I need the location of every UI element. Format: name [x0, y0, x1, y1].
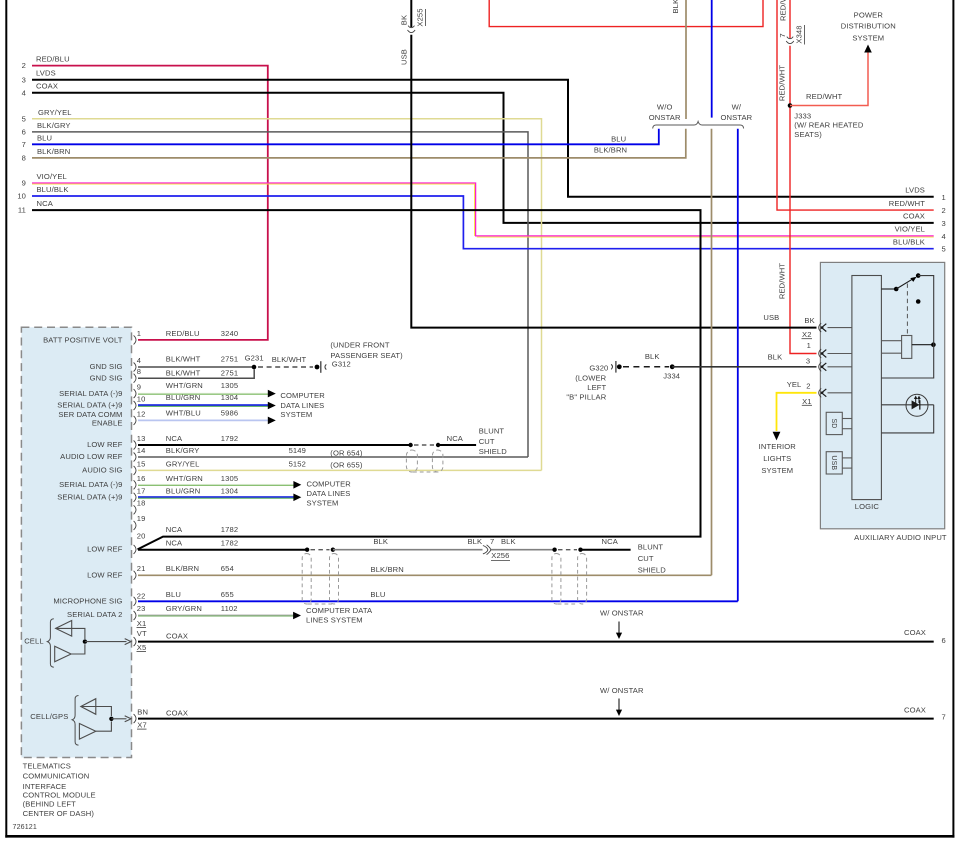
svg-text:GRY/GRN: GRY/GRN [166, 604, 202, 613]
CELL brace [47, 619, 53, 668]
CELL antenna upper (triangle left) [56, 621, 85, 640]
svg-text:BLK: BLK [645, 352, 660, 361]
svg-text:1305: 1305 [221, 381, 238, 390]
svg-text:BLK/BRN: BLK/BRN [166, 564, 199, 573]
telematics pin arcs on right edge [134, 335, 136, 723]
pin17 wire BLU/GRN [138, 497, 294, 498]
svg-text:BLU/BLK: BLU/BLK [893, 238, 925, 247]
interior lights arrow [773, 432, 781, 441]
svg-text:COAX: COAX [166, 632, 188, 641]
pin20 lower wire labels [166, 539, 238, 548]
svg-text:BLK: BLK [501, 537, 516, 546]
svg-text:BLK: BLK [768, 353, 783, 362]
wire 7 BLU with stub up to ONSTAR brace [32, 129, 659, 145]
CELL/GPS antenna upper [81, 699, 112, 716]
svg-text:SYSTEM: SYSTEM [307, 498, 339, 507]
svg-text:RED/WHT: RED/WHT [779, 0, 788, 21]
W/ ONSTAR label [720, 103, 752, 122]
aux internal pin leads with left arrows [828, 328, 852, 393]
pin4 labels [166, 341, 403, 369]
svg-text:RED/BLU: RED/BLU [166, 329, 200, 338]
left wire color labels [36, 55, 72, 209]
G320 ground terminal symbol [611, 361, 616, 373]
svg-text:INTERIOR: INTERIOR [759, 442, 797, 451]
W/ ONSTAR BLU vertical down to pin22 wire [737, 129, 739, 602]
svg-text:COMPUTER: COMPUTER [307, 480, 352, 489]
svg-text:ONSTAR: ONSTAR [649, 113, 681, 122]
svg-text:WHT/BLU: WHT/BLU [166, 408, 201, 417]
svg-text:7: 7 [778, 33, 787, 37]
svg-text:BLK/BRN: BLK/BRN [371, 565, 404, 574]
svg-text:AUXILIARY AUDIO INPUT: AUXILIARY AUDIO INPUT [854, 533, 947, 542]
W/O ONSTAR label [649, 103, 681, 122]
svg-text:RED/WHT: RED/WHT [778, 263, 787, 300]
svg-text:2: 2 [942, 206, 946, 215]
svg-text:LOW REF: LOW REF [87, 571, 123, 580]
W/ ONSTAR arrow 2 (to COAX 7) [600, 686, 644, 716]
wire 5 GRY/YEL routing down to pin15 wire [32, 119, 542, 471]
svg-text:2751: 2751 [221, 355, 238, 364]
pin13 wire NCA with shield dots [138, 443, 476, 447]
(LOWER LEFT B PILLAR text [566, 374, 606, 402]
svg-text:VIO/YEL: VIO/YEL [895, 225, 925, 234]
svg-text:BLU: BLU [37, 133, 52, 142]
svg-text:DISTRIBUTION: DISTRIBUTION [841, 22, 896, 31]
dashed ground lead to G312 [258, 366, 313, 368]
switch pivot dot [894, 287, 899, 292]
arrow pin10 [268, 402, 276, 410]
svg-text:9: 9 [137, 383, 141, 392]
svg-text:(W/ REAR HEATED: (W/ REAR HEATED [794, 121, 864, 130]
svg-text:20: 20 [137, 531, 146, 540]
svg-text:G231: G231 [245, 353, 264, 362]
svg-text:BLU: BLU [370, 590, 385, 599]
svg-text:SERIAL DATA (+)9: SERIAL DATA (+)9 [57, 401, 122, 410]
pin8 wire BLK/WHT up to G231 [138, 369, 254, 378]
arrow pin23 [293, 612, 301, 620]
svg-text:VT: VT [137, 629, 147, 638]
svg-text:BLUNT: BLUNT [638, 542, 664, 551]
svg-text:4: 4 [942, 232, 946, 241]
svg-text:TELEMATICS: TELEMATICS [23, 761, 71, 770]
svg-text:RED/BLU: RED/BLU [36, 55, 70, 64]
svg-text:BLUNT: BLUNT [479, 426, 505, 435]
G320 ground chain to aux BLK pin [589, 364, 608, 373]
svg-text:3: 3 [806, 356, 810, 365]
svg-text:GND SIG: GND SIG [90, 362, 123, 371]
W/ ONSTAR BLK/BRN vertical down to pin21 wire [711, 129, 713, 576]
aux switch leads [881, 288, 896, 290]
svg-text:11: 11 [18, 206, 26, 215]
svg-text:5986: 5986 [221, 408, 238, 417]
svg-text:W/: W/ [732, 103, 742, 112]
pin number labels [137, 329, 148, 730]
svg-text:17: 17 [137, 486, 146, 495]
svg-text:23: 23 [137, 604, 146, 613]
svg-text:COMPUTER: COMPUTER [280, 391, 325, 400]
svg-text:BLK/BRN: BLK/BRN [37, 147, 70, 156]
svg-text:COMMUNICATION: COMMUNICATION [23, 772, 90, 781]
computer data lines system text 1 [280, 391, 325, 419]
svg-text:CUT: CUT [479, 437, 495, 446]
relay coil box [902, 336, 912, 359]
svg-text:X7: X7 [137, 721, 147, 730]
svg-text:G312: G312 [332, 360, 351, 369]
switch NC contact dot [916, 299, 921, 304]
wire 4 COAX routing to right wire 3 [32, 93, 934, 223]
svg-text:BLK/GRY: BLK/GRY [37, 121, 71, 130]
svg-text:LEFT: LEFT [587, 383, 606, 392]
CELL antenna lower (triangle right) [55, 644, 85, 662]
svg-text:1: 1 [137, 329, 141, 338]
USB leads [842, 458, 852, 468]
CELL/GPS antenna group [30, 712, 68, 721]
svg-text:2: 2 [806, 382, 810, 391]
connector X256 symbol [483, 545, 491, 555]
svg-text:1782: 1782 [221, 539, 238, 548]
svg-text:BLK/BRN: BLK/BRN [594, 146, 627, 155]
CELL junction dot and lead to VT pin [83, 639, 131, 645]
svg-text:LVDS: LVDS [905, 186, 925, 195]
svg-text:3240: 3240 [221, 329, 238, 338]
svg-text:NCA: NCA [447, 434, 464, 443]
BN COAX wire [138, 718, 934, 720]
red loop wire at top (RED/WHT) [489, 0, 763, 27]
svg-text:COAX: COAX [36, 82, 58, 91]
relay input leads [881, 341, 901, 354]
G231 junction dot [252, 365, 257, 370]
svg-text:GRY/YEL: GRY/YEL [166, 459, 200, 468]
svg-text:655: 655 [221, 590, 234, 599]
pin10 wire BLU/GRN [138, 405, 268, 406]
red vertical RED/WHT with X348 and J333 to aux pin 1 [790, 0, 817, 354]
svg-text:12: 12 [137, 409, 146, 418]
svg-text:2: 2 [22, 61, 26, 70]
svg-text:SEATS): SEATS) [794, 130, 822, 139]
telematics internal pin function labels [43, 335, 123, 618]
svg-text:8: 8 [137, 367, 141, 376]
svg-text:GND SIG: GND SIG [90, 373, 123, 382]
svg-text:4: 4 [22, 88, 26, 97]
svg-text:1792: 1792 [221, 434, 238, 443]
svg-text:AUDIO SIG: AUDIO SIG [82, 466, 122, 475]
arrow to power distribution system [864, 45, 872, 53]
underlines for connector ids [137, 628, 147, 730]
svg-text:1305: 1305 [221, 474, 238, 483]
J333 branch to power distribution [790, 51, 868, 106]
CELL/GPS antenna lower [79, 721, 111, 739]
svg-text:DATA LINES: DATA LINES [307, 489, 351, 498]
switch enclosure outline [881, 276, 933, 378]
wire 2 RED/BLU horizontal+vertical to pin1 [32, 66, 268, 340]
rotated labels X255 [400, 8, 426, 65]
wire 6 BLK/GRY routing down to pin14 wire [32, 132, 528, 457]
svg-text:WHT/GRN: WHT/GRN [166, 381, 203, 390]
svg-text:X5: X5 [137, 643, 147, 652]
svg-text:SHIELD: SHIELD [638, 566, 667, 575]
svg-text:LVDS: LVDS [36, 69, 56, 78]
telematics module caption [23, 761, 96, 818]
svg-text:LINES SYSTEM: LINES SYSTEM [306, 616, 363, 625]
power distribution text [841, 11, 896, 43]
brace [653, 122, 744, 129]
svg-text:LOW REF: LOW REF [87, 545, 123, 554]
BLU label mid [611, 135, 626, 144]
arrow pin17 [293, 494, 301, 502]
svg-text:SD: SD [830, 419, 837, 429]
svg-text:10: 10 [17, 192, 26, 201]
svg-text:SERIAL DATA (-)9: SERIAL DATA (-)9 [59, 480, 122, 489]
wire 10 BLU/BLK routing to right wire 5 [32, 196, 934, 249]
svg-text:BLK/BRN: BLK/BRN [671, 0, 680, 14]
svg-text:15: 15 [137, 459, 146, 468]
page border left [5, 0, 7, 838]
svg-text:GRY/YEL: GRY/YEL [38, 108, 72, 117]
BLK label [645, 352, 660, 361]
computer data lines system text 2 [307, 480, 352, 508]
RED/WHT label on J333 branch [806, 92, 843, 101]
shield capsules pair around pins 21-22 right [552, 554, 587, 605]
svg-text:16: 16 [137, 474, 146, 483]
svg-text:COMPUTER DATA: COMPUTER DATA [306, 606, 373, 615]
svg-text:USB: USB [830, 455, 837, 470]
aux pin arcs on left edge [819, 323, 822, 397]
rotated label BLK/BRN at top [671, 0, 680, 14]
X256 labels [373, 537, 666, 574]
svg-text:1304: 1304 [221, 393, 238, 402]
svg-text:6: 6 [22, 128, 26, 137]
svg-text:PASSENGER SEAT): PASSENGER SEAT) [330, 351, 403, 360]
solid BLK wire J334 to aux pin 3 [672, 366, 816, 368]
svg-text:BLU: BLU [611, 135, 626, 144]
LED circle symbol [881, 394, 933, 416]
svg-text:7: 7 [490, 537, 494, 546]
W/ ONSTAR arrow 1 (to COAX 6) [600, 609, 644, 639]
svg-text:RED/WHT: RED/WHT [778, 65, 787, 102]
pin14 wire BLK/GRY [138, 456, 528, 458]
switch blade with arrow [896, 277, 916, 289]
LED circuit lines [881, 405, 933, 433]
svg-text:BLU/GRN: BLU/GRN [166, 393, 201, 402]
svg-text:ENABLE: ENABLE [92, 418, 123, 427]
svg-text:1: 1 [807, 341, 811, 350]
svg-text:USB: USB [763, 313, 779, 322]
svg-text:COAX: COAX [904, 628, 926, 637]
svg-text:BATT POSITIVE VOLT: BATT POSITIVE VOLT [43, 335, 123, 344]
CELL antenna group [24, 636, 43, 645]
arrow pin9 [268, 390, 276, 398]
pin23 wire GRY/GRN [138, 615, 294, 616]
svg-text:BLK/GRY: BLK/GRY [166, 446, 200, 455]
pin20 lower wire NCA shield chain [138, 548, 631, 552]
computer data lines system text 3 [306, 606, 373, 625]
BLK/BRN label mid [594, 146, 627, 155]
svg-text:SYSTEM: SYSTEM [761, 466, 793, 475]
svg-text:5: 5 [942, 245, 946, 254]
svg-text:19: 19 [137, 514, 146, 523]
svg-text:SYSTEM: SYSTEM [852, 34, 884, 43]
svg-text:1102: 1102 [221, 604, 238, 613]
svg-text:VIO/YEL: VIO/YEL [37, 172, 67, 181]
BLU vertical above brace [711, 0, 713, 118]
red vertical RED/WHT to right wire 2 [777, 0, 934, 210]
CELL/GPS brace [72, 696, 78, 746]
pin20 upper wire labels [166, 525, 238, 534]
svg-text:BLU/GRN: BLU/GRN [166, 486, 201, 495]
svg-text:X256: X256 [491, 551, 509, 560]
svg-text:10: 10 [137, 395, 146, 404]
USB port box [826, 452, 842, 474]
left wire number labels [17, 61, 26, 215]
svg-text:X2: X2 [802, 330, 812, 339]
svg-text:W/ ONSTAR: W/ ONSTAR [600, 686, 644, 695]
svg-text:X348: X348 [795, 25, 804, 43]
svg-text:J333: J333 [794, 111, 811, 120]
J333 junction dot [788, 103, 793, 108]
J333 text [794, 111, 864, 139]
G320 dot [617, 364, 622, 369]
VT COAX wire [138, 641, 934, 643]
shield capsules pair around pins 21-22 left [302, 554, 338, 605]
page border right [952, 0, 954, 838]
svg-text:9: 9 [22, 179, 26, 188]
svg-text:AUDIO LOW REF: AUDIO LOW REF [60, 452, 123, 461]
arrow pin16 [293, 481, 301, 489]
RIGHT WIRE GROUP labels (wires 1-7 on right edge) [889, 186, 926, 715]
svg-text:5152: 5152 [289, 459, 306, 468]
diagram number 726121 [13, 823, 37, 831]
J334 label [663, 371, 680, 380]
svg-text:7: 7 [942, 713, 946, 722]
wire 3 LVDS routing to right wire 1 [32, 80, 934, 197]
rotated labels near X348 [778, 0, 805, 299]
svg-text:DATA LINES: DATA LINES [280, 401, 324, 410]
SD card box [826, 412, 842, 434]
svg-text:(UNDER FRONT: (UNDER FRONT [330, 341, 389, 350]
pin22 wire BLU [138, 600, 738, 602]
svg-text:RED/WHT: RED/WHT [806, 92, 843, 101]
svg-text:SERIAL DATA (+)9: SERIAL DATA (+)9 [57, 493, 122, 502]
svg-text:1782: 1782 [221, 525, 238, 534]
svg-text:YEL: YEL [787, 380, 802, 389]
svg-text:NCA: NCA [166, 539, 183, 548]
svg-text:SERIAL DATA 2: SERIAL DATA 2 [67, 610, 122, 619]
SD leads [842, 419, 852, 429]
svg-text:BK: BK [400, 15, 409, 25]
svg-text:NCA: NCA [37, 199, 54, 208]
svg-text:(OR 655): (OR 655) [330, 461, 363, 470]
svg-text:4: 4 [137, 356, 141, 365]
svg-text:CELL/GPS: CELL/GPS [30, 712, 68, 721]
LOGIC block [852, 276, 882, 512]
svg-text:"B" PILLAR: "B" PILLAR [566, 392, 606, 401]
svg-text:CENTER OF DASH): CENTER OF DASH) [23, 809, 95, 818]
svg-text:INTERFACE: INTERFACE [23, 782, 67, 791]
svg-text:2751: 2751 [221, 368, 238, 377]
G312 ground terminal symbol [315, 361, 327, 373]
aux pin labels [763, 313, 814, 406]
pin1 wire labels [166, 329, 238, 338]
svg-text:W/ ONSTAR: W/ ONSTAR [600, 609, 644, 618]
pin16 wire WHT/GRN [138, 484, 294, 485]
svg-text:3: 3 [22, 75, 26, 84]
relay output lead to enclosure [912, 342, 936, 347]
svg-text:X255: X255 [416, 8, 425, 26]
svg-text:22: 22 [137, 591, 146, 600]
svg-text:13: 13 [137, 434, 146, 443]
connector X255 symbol [408, 26, 416, 33]
switch dashed actuator link [906, 284, 908, 336]
pin15 wire GRY/YEL [138, 469, 542, 471]
svg-text:3: 3 [942, 219, 946, 228]
svg-text:CONTROL MODULE: CONTROL MODULE [23, 791, 96, 800]
svg-text:(BEHIND LEFT: (BEHIND LEFT [23, 800, 77, 809]
wire 11 NCA routing down to pin20 upper wire [32, 210, 701, 549]
svg-text:RED/WHT: RED/WHT [889, 199, 926, 208]
svg-text:BN: BN [137, 707, 148, 716]
svg-text:ONSTAR: ONSTAR [720, 113, 752, 122]
BLK/BRN vertical above brace [685, 0, 687, 119]
svg-text:BLK: BLK [373, 537, 388, 546]
svg-text:1: 1 [942, 193, 946, 202]
svg-text:654: 654 [221, 564, 234, 573]
svg-text:G320: G320 [589, 364, 608, 373]
pin21 wire BLK/BRN [138, 574, 712, 576]
svg-text:NCA: NCA [166, 434, 183, 443]
TELEMATICS MODULE BOX [21, 327, 131, 757]
svg-text:21: 21 [137, 564, 146, 573]
J334 junction dot [670, 364, 675, 369]
dashed BLK lead G320 to J334 [623, 366, 669, 368]
svg-text:W/O: W/O [657, 103, 673, 112]
svg-text:BLK/WHT: BLK/WHT [272, 355, 307, 364]
svg-text:BLU: BLU [166, 590, 181, 599]
svg-text:MICROPHONE SIG: MICROPHONE SIG [53, 597, 122, 606]
pin12 wire WHT/BLU [138, 419, 268, 421]
AUXILIARY AUDIO INPUT BOX [820, 262, 944, 528]
svg-text:7: 7 [22, 140, 26, 149]
svg-text:BLU/BLK: BLU/BLK [37, 185, 69, 194]
svg-text:J334: J334 [663, 371, 680, 380]
svg-text:726121: 726121 [13, 823, 37, 831]
svg-text:BLK/WHT: BLK/WHT [166, 355, 201, 364]
svg-text:COAX: COAX [903, 212, 925, 221]
svg-text:(OR 654): (OR 654) [330, 448, 363, 457]
switch contact dot top [916, 273, 921, 278]
X255 connector vertical wire (USB BK) routing to aux box [411, 0, 816, 328]
svg-text:POWER: POWER [854, 11, 884, 20]
shield capsules around pins 14-15 [406, 450, 443, 472]
svg-text:NCA: NCA [601, 537, 618, 546]
wire 8 BLK/BRN with stub up to ONSTAR brace [32, 129, 686, 158]
svg-text:X1: X1 [137, 619, 147, 628]
svg-text:WHT/GRN: WHT/GRN [166, 474, 203, 483]
svg-text:6: 6 [942, 636, 946, 645]
svg-text:(LOWER: (LOWER [575, 374, 606, 383]
svg-text:14: 14 [137, 446, 146, 455]
svg-text:18: 18 [137, 499, 146, 508]
svg-text:CELL: CELL [24, 636, 43, 645]
svg-text:USB: USB [400, 49, 409, 65]
CELL/GPS junction dot and lead to BN pin [109, 716, 131, 722]
svg-text:5: 5 [22, 114, 26, 123]
arrow pin12 [268, 417, 276, 425]
connector X348 symbol [786, 37, 794, 44]
svg-text:1304: 1304 [221, 486, 238, 495]
svg-text:BLK: BLK [467, 537, 482, 546]
svg-text:SHIELD: SHIELD [479, 447, 508, 456]
svg-text:LOGIC: LOGIC [855, 502, 880, 511]
